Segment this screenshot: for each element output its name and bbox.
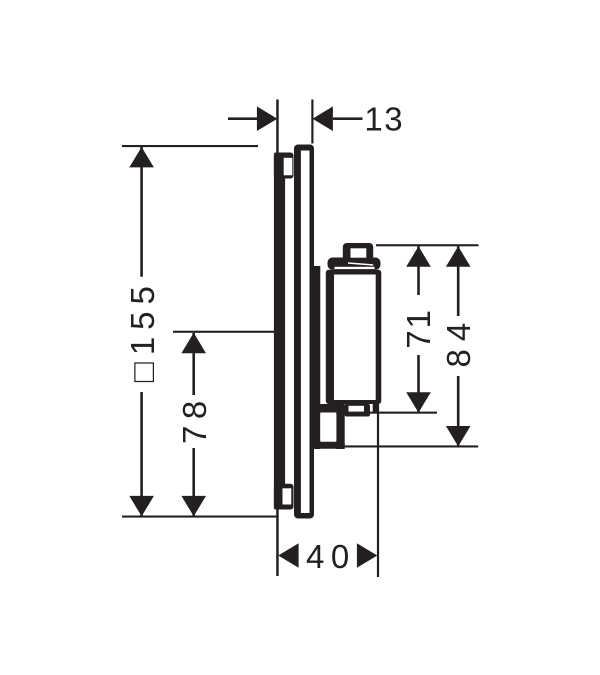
front cover plate: [294, 145, 314, 519]
dim 155 line-lower: [140, 392, 143, 517]
top knob: [343, 243, 373, 261]
dim 71 line-lower: [417, 355, 420, 413]
cartridge body: [326, 270, 382, 404]
dim 155 arrow-down: [129, 496, 154, 516]
dim 84 arrow-up: [446, 246, 471, 266]
boundary line 71/84-top: [376, 244, 479, 246]
boundary line 155-top: [122, 145, 258, 147]
dim 13 arrow-left: [313, 106, 333, 131]
svg-text:78: 78: [176, 394, 213, 444]
sleeve column: [314, 266, 320, 405]
extension line 40-right: [377, 404, 379, 577]
dim 155 line-upper: [140, 146, 143, 277]
svg-text:71: 71: [400, 308, 437, 349]
dim 84 line-lower: [457, 376, 460, 446]
svg-text:□155: □155: [124, 279, 161, 382]
extension line 13-left: [276, 100, 279, 159]
boundary line 78-top: [173, 331, 279, 333]
bracket foot: [314, 442, 345, 449]
rear wall-plate bar: [274, 153, 285, 510]
dim 13 tail-right: [333, 117, 363, 120]
dim 78 arrow-down: [181, 496, 206, 516]
dim 71 arrow-down: [406, 392, 431, 412]
svg-text:84: 84: [440, 315, 477, 368]
sleeve bridge: [314, 404, 345, 413]
rear plate bottom tab: [274, 484, 294, 510]
bracket arm: [336, 412, 344, 449]
bottom right piece: [373, 404, 379, 413]
dim 13 arrow-right: [257, 106, 277, 131]
svg-text:13: 13: [364, 101, 404, 138]
dim 155 arrow-up: [129, 147, 154, 167]
dim 13 tail-left: [228, 117, 257, 120]
bracket window: [320, 413, 336, 442]
dim 71 arrow-up: [406, 246, 431, 266]
boundary line 71-bottom: [344, 412, 437, 414]
svg-text:40: 40: [306, 538, 356, 575]
dim 78 line-upper: [192, 333, 195, 395]
extension line 40-left: [276, 506, 279, 576]
dim 40 arrow-left: [278, 543, 298, 568]
dim 40 arrow-right: [357, 543, 377, 568]
dim 84 line-upper: [457, 246, 460, 316]
dim 84 arrow-down: [446, 426, 471, 446]
boundary line 84-bottom: [341, 445, 478, 447]
cap bar: [328, 258, 381, 270]
extension line 13-right: [311, 100, 313, 144]
boundary line 155-bottom: [122, 516, 278, 518]
dim 78 line-lower: [192, 448, 195, 517]
sleeve lower column: [314, 412, 320, 449]
dim 71 line-upper: [417, 246, 420, 295]
bottom step: [345, 404, 371, 417]
dim 78 arrow-up: [181, 333, 206, 353]
rear plate top tab: [274, 153, 294, 179]
